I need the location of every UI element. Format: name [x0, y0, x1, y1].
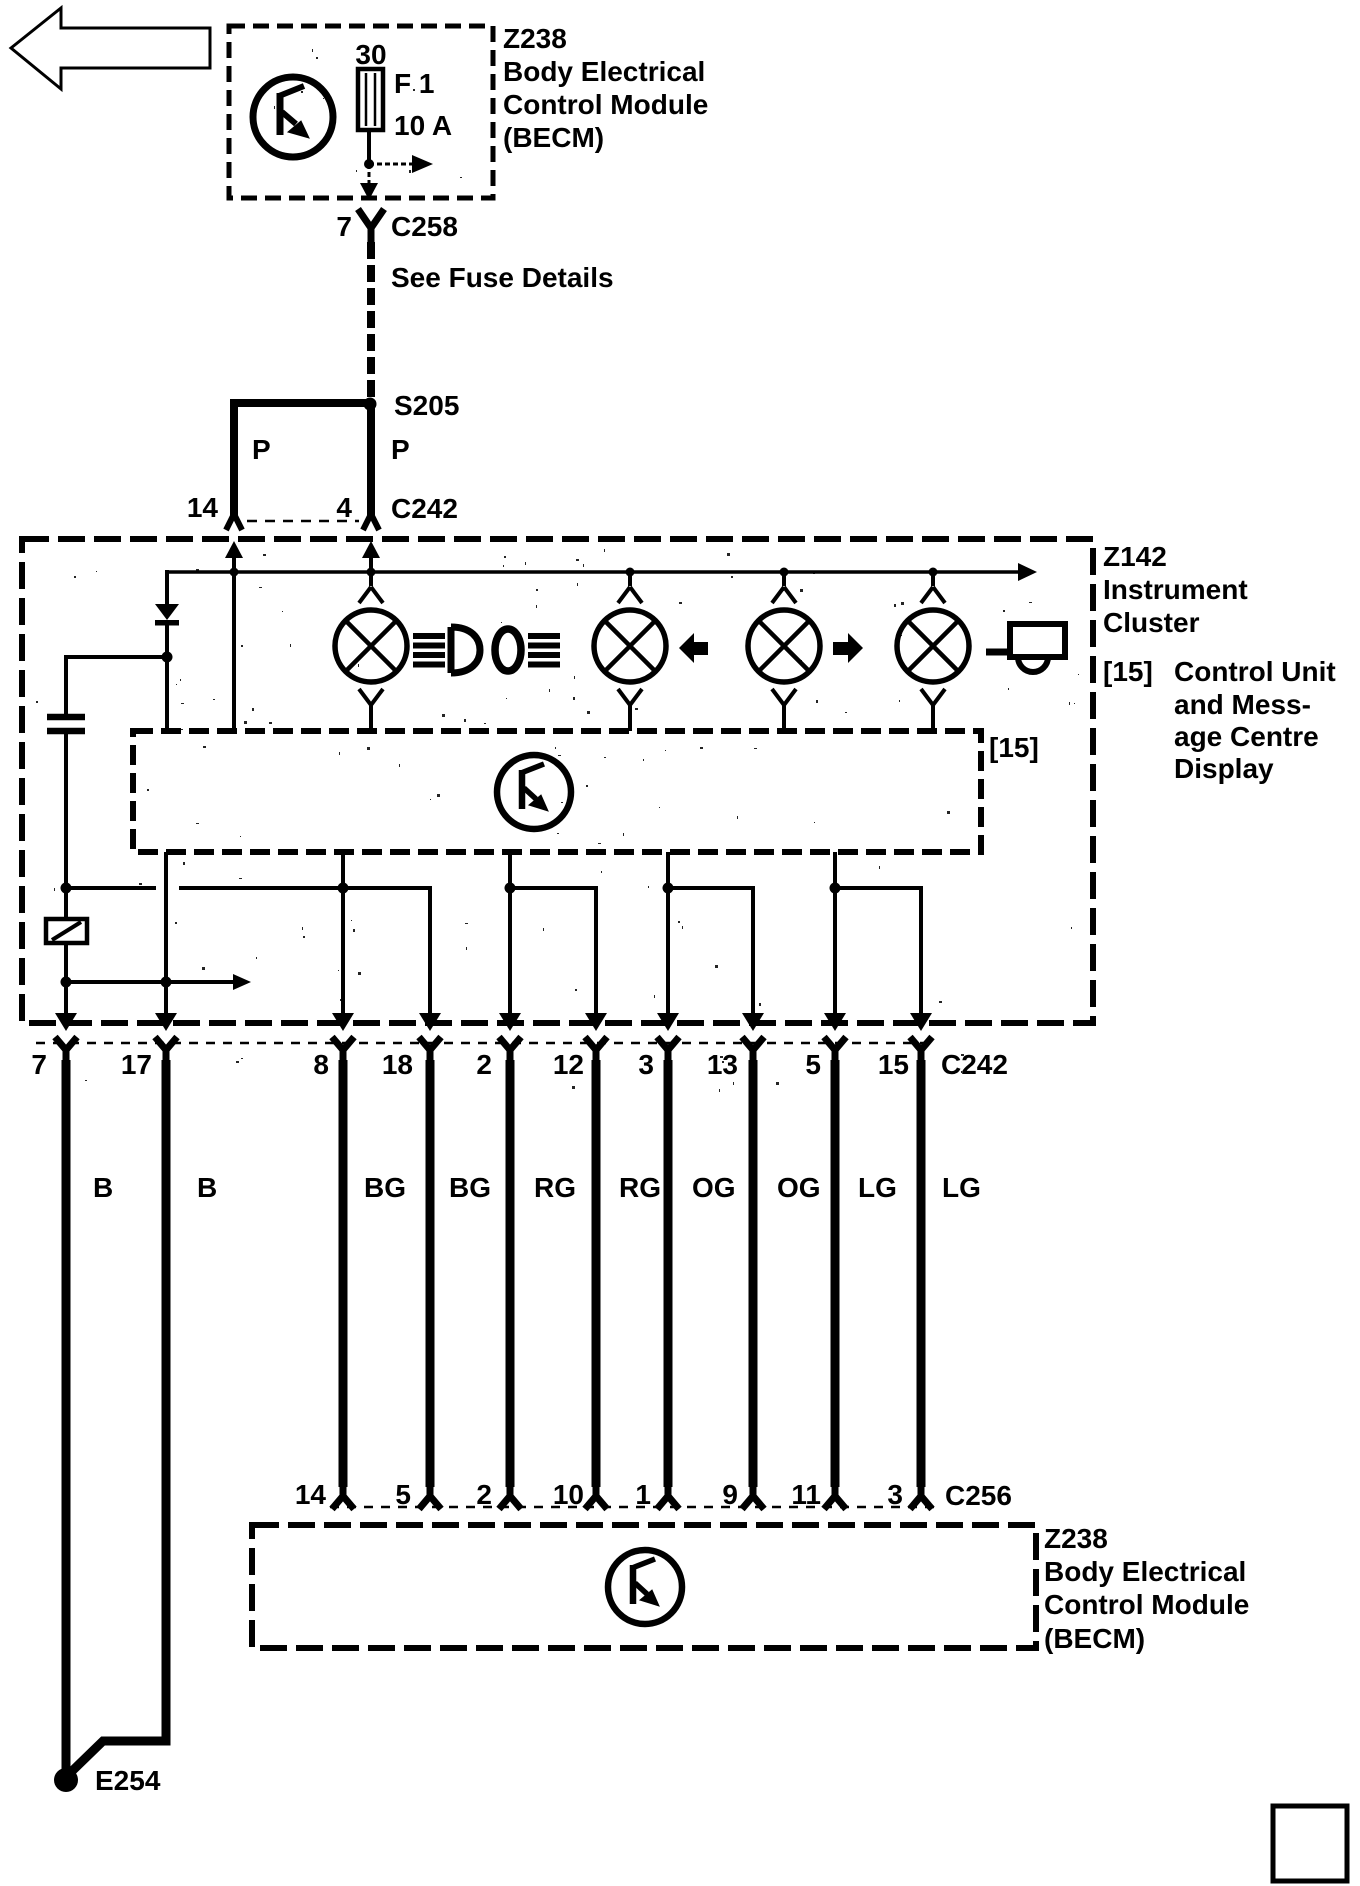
BECM Z238 top dashed box [229, 26, 493, 198]
svg-text:2: 2 [476, 1049, 492, 1080]
wire capacitor down to link [64, 734, 68, 920]
harness wire pin12 RG [592, 1060, 601, 1487]
svg-text:C242: C242 [941, 1049, 1008, 1080]
wire bus corner down to diode [165, 570, 169, 605]
svg-text:B: B [197, 1172, 217, 1203]
label Z238 BECM (bottom) [1044, 1523, 1249, 1654]
svg-text:B: B [93, 1172, 113, 1203]
svg-text:See Fuse Details: See Fuse Details [391, 262, 614, 293]
svg-text:(BECM): (BECM) [1044, 1623, 1145, 1654]
lamp L2 (turn left) with socket forks [594, 572, 666, 731]
svg-text:E254: E254 [95, 1765, 161, 1796]
svg-text:Cluster: Cluster [1103, 607, 1200, 638]
svg-text:OG: OG [777, 1172, 821, 1203]
lamp L1 (illumination) with socket forks [335, 572, 407, 731]
wire pin17 from control unit down [164, 852, 168, 1013]
svg-text:5: 5 [805, 1049, 821, 1080]
BECM Z238 bottom dashed box [252, 1525, 1036, 1648]
svg-text:10: 10 [553, 1479, 584, 1510]
connector C258 pin 7 fork [336, 209, 458, 242]
diode [155, 604, 179, 652]
svg-text:BG: BG [364, 1172, 406, 1203]
dip beam indicator icon [495, 629, 560, 671]
svg-text:age Centre: age Centre [1174, 721, 1319, 752]
svg-text:BG: BG [449, 1172, 491, 1203]
junction node below fuse [364, 159, 374, 169]
svg-text:LG: LG [942, 1172, 981, 1203]
entry arrow pin 4 into cluster [362, 541, 380, 558]
bridge wire pin2 to pin12 [510, 888, 596, 1013]
svg-text:LG: LG [858, 1172, 897, 1203]
svg-text:Z142: Z142 [1103, 541, 1167, 572]
harness wire pin15 LG [917, 1060, 926, 1487]
svg-text:C256: C256 [945, 1480, 1012, 1511]
solid-state symbol U3 (clock in circle, BECM bottom) [608, 1550, 682, 1624]
page-reference square (bottom right) [1273, 1806, 1347, 1881]
harness wire pin2 RG [506, 1060, 515, 1487]
svg-text:Instrument: Instrument [1103, 574, 1248, 605]
exit arrows at cluster bottom edge [55, 1013, 932, 1031]
label Z142 Instrument Cluster [1103, 541, 1336, 784]
supply bus across cluster [167, 570, 1020, 574]
scan speckle texture [36, 49, 1079, 1092]
junction dots on horizontal [61, 883, 72, 894]
svg-text:(BECM): (BECM) [503, 122, 604, 153]
branch arrow to right (other circuits) [369, 163, 413, 166]
svg-text:P: P [252, 434, 271, 465]
harness wire pin7 B [62, 1060, 71, 1770]
svg-text:Z238: Z238 [1044, 1523, 1108, 1554]
internal ground rail with arrow [66, 980, 236, 984]
harness wire pin3 OG [664, 1060, 673, 1487]
wire pin14 entry down to inner unit [232, 556, 236, 731]
connector C242 (bottom) dashed line [36, 1042, 932, 1045]
main beam indicator icon [413, 627, 480, 673]
svg-text:RG: RG [534, 1172, 576, 1203]
harness wire pin13 OG [749, 1060, 758, 1487]
svg-text:Control Module: Control Module [1044, 1589, 1249, 1620]
svg-text:5: 5 [395, 1479, 411, 1510]
C242 bottom forks [55, 1037, 932, 1064]
label Z238 BECM (top) [503, 23, 708, 153]
svg-text:14: 14 [295, 1479, 327, 1510]
connector C256 dashed line [330, 1506, 935, 1509]
svg-text:7: 7 [336, 211, 352, 242]
bus junction dots [230, 568, 239, 577]
svg-text:11: 11 [791, 1479, 821, 1510]
wire down to box edge [368, 164, 371, 185]
svg-text:C258: C258 [391, 211, 458, 242]
wire pin4 entry to bus [369, 556, 373, 572]
ground point E254 [54, 1768, 78, 1792]
solid-state symbol U1 (clock in circle, BECM top) [253, 77, 333, 157]
harness wire pin5 LG [831, 1060, 840, 1487]
wire capacitor node to pin18 (horizontal, crossover gap at pin17) [66, 888, 430, 1013]
wire junction to capacitor branch [66, 657, 167, 714]
svg-text:Body Electrical: Body Electrical [503, 56, 705, 87]
svg-text:RG: RG [619, 1172, 661, 1203]
svg-text:OG: OG [692, 1172, 736, 1203]
bridge wire pin5 to pin15 [835, 888, 921, 1013]
svg-text:[15]: [15] [1103, 656, 1153, 687]
svg-text:12: 12 [553, 1049, 584, 1080]
svg-text:S205: S205 [394, 390, 459, 421]
svg-text:8: 8 [313, 1049, 329, 1080]
svg-text:4: 4 [336, 492, 352, 523]
svg-text:3: 3 [887, 1479, 903, 1510]
node: diode output junction [162, 652, 173, 663]
svg-text:1: 1 [635, 1479, 651, 1510]
wire P left branch [234, 403, 367, 518]
C242 fork pin 4 [363, 514, 379, 530]
C242 connector dashed line (top) [247, 520, 359, 523]
C242 bottom pin labels [31, 1049, 909, 1080]
C256 forks [332, 1485, 932, 1509]
wire colour labels [93, 1172, 981, 1203]
svg-text:17: 17 [121, 1049, 152, 1080]
svg-text:14: 14 [187, 492, 219, 523]
page-reference arrow (top left) [11, 8, 210, 89]
capacitor [47, 717, 85, 731]
svg-text:3: 3 [638, 1049, 654, 1080]
C256 pin labels [295, 1479, 903, 1510]
fuse F1 30 10A [355, 39, 452, 141]
turn right arrow icon [833, 633, 863, 663]
svg-text:7: 7 [31, 1049, 47, 1080]
bridge wire pin3 to pin13 [668, 888, 753, 1013]
wire diode junction down into control unit [165, 662, 169, 731]
svg-text:and Mess-: and Mess- [1174, 689, 1311, 720]
entry arrow pin 14 into cluster [225, 541, 243, 558]
in-line link element (box with diagonal) on pin7 wire [46, 919, 87, 943]
svg-text:[15]: [15] [989, 732, 1039, 763]
harness wire pin8 BG [339, 1060, 348, 1487]
C242 fork pin 14 [226, 514, 242, 530]
svg-text:30: 30 [355, 39, 386, 70]
svg-text:P: P [391, 434, 410, 465]
svg-text:Control Unit: Control Unit [1174, 656, 1336, 687]
solid-state symbol U2 (clock in circle, control unit) [497, 755, 571, 829]
wire fuse output [367, 130, 371, 161]
lamp L3 (turn right) with socket forks [748, 572, 820, 731]
svg-text:F 1: F 1 [394, 68, 434, 99]
wire pin2 from control unit [508, 852, 512, 1013]
wire P right branch [367, 404, 375, 518]
turn left arrow icon [679, 633, 708, 663]
svg-text:10 A: 10 A [394, 110, 452, 141]
svg-text:C242: C242 [391, 493, 458, 524]
wire pin8 from control unit [341, 852, 345, 1013]
svg-text:2: 2 [476, 1479, 492, 1510]
svg-text:Body Electrical: Body Electrical [1044, 1556, 1246, 1587]
svg-text:13: 13 [707, 1049, 738, 1080]
trailer indicator icon [986, 624, 1065, 672]
splice S205 [364, 398, 377, 411]
wire pin3 from control unit [666, 852, 670, 1013]
svg-text:18: 18 [382, 1049, 413, 1080]
svg-text:Z238: Z238 [503, 23, 567, 54]
wire link to bottom edge [64, 943, 68, 1013]
Z142 Instrument Cluster dashed box [22, 539, 1093, 1023]
harness wire pin18 BG [426, 1060, 435, 1487]
control unit [15] inner dashed box [133, 731, 981, 852]
wire pin5 from control unit [833, 852, 837, 1013]
svg-text:15: 15 [878, 1049, 909, 1080]
svg-text:Display: Display [1174, 753, 1274, 784]
harness wire pin17 B with bend to ground [68, 1060, 166, 1775]
svg-text:9: 9 [722, 1479, 738, 1510]
svg-text:Control Module: Control Module [503, 89, 708, 120]
dashed power wire C258 to S205 [367, 242, 375, 398]
lamp L4 (trailer) with socket forks [897, 572, 969, 731]
